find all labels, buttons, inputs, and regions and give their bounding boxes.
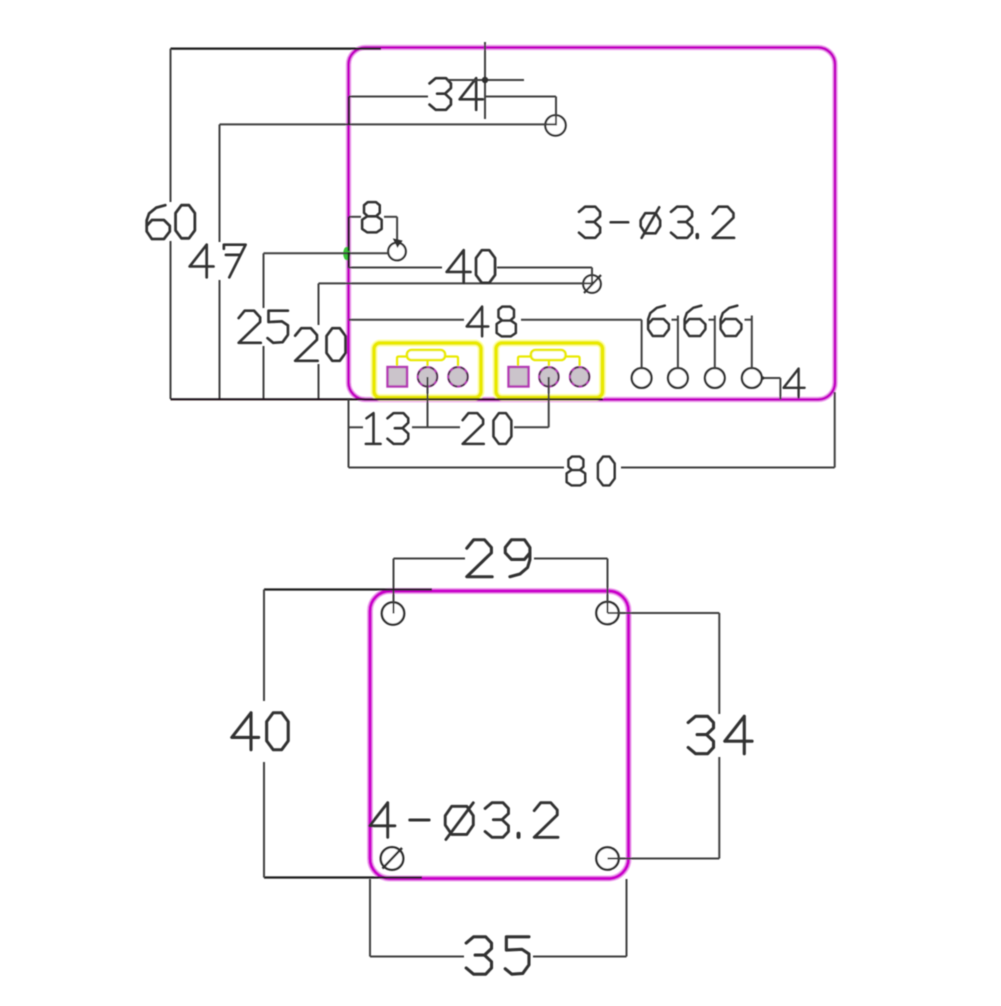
dim 4 bracket bbox=[762, 377, 781, 379]
dim 13-20 left extension bbox=[348, 400, 350, 468]
mounting hole H1 top bbox=[545, 115, 565, 135]
dim 40 line + drop to hole H3 bbox=[349, 267, 443, 269]
dim 47 text bbox=[190, 245, 214, 278]
hole H3 slash bbox=[584, 275, 601, 293]
connector K2 square pad bbox=[509, 367, 529, 387]
dim 40b text bbox=[232, 713, 259, 750]
PCB board outline (bottom view, 35x40) bbox=[370, 591, 629, 879]
connector K2 round pad 1 bbox=[539, 367, 558, 386]
hole B4 bottom-right bbox=[596, 847, 618, 869]
dim 60 extension top bbox=[171, 47, 382, 49]
connector K2 round pad 2 bbox=[570, 367, 589, 386]
connector K2 tab bbox=[531, 350, 566, 360]
dim 8 arrowhead bbox=[393, 238, 403, 248]
pin hole P3 bbox=[705, 368, 725, 388]
dim 34b extensions bbox=[608, 612, 720, 614]
dim 48 text bbox=[467, 307, 489, 337]
dim 6 text 1 bbox=[648, 306, 669, 336]
dim 25 text bbox=[239, 311, 261, 343]
mounting hole H3 bbox=[583, 275, 601, 293]
dim 40 text bbox=[447, 250, 471, 283]
dim 13 line bbox=[349, 426, 364, 428]
center mark vertical bbox=[484, 42, 486, 119]
dim 6 segments bbox=[672, 319, 679, 321]
dim 29 droplines bbox=[393, 559, 395, 614]
dim 8 text bbox=[362, 202, 382, 232]
dim 34 text bbox=[429, 78, 450, 110]
dim 80 text bbox=[567, 457, 586, 486]
pad drop line 1 bbox=[427, 377, 429, 427]
dim 4 text bbox=[784, 369, 805, 398]
pad drop line 2 bbox=[548, 377, 550, 427]
dim 34b line bbox=[718, 613, 720, 714]
connector block K2 outline bbox=[496, 343, 603, 398]
mounting hole H2 left edge bbox=[388, 243, 406, 261]
connector K1 tab bbox=[407, 350, 445, 360]
pin hole P4 bbox=[742, 368, 762, 388]
dim 6 text 3 bbox=[721, 306, 742, 336]
center mark horizontal bbox=[447, 79, 524, 81]
connector K1 square pad bbox=[388, 367, 408, 387]
hole B2 top-right bbox=[596, 602, 618, 624]
hole B3 slash bbox=[383, 848, 403, 869]
pin hole P2 bbox=[668, 368, 688, 388]
connector K1 traces bbox=[397, 357, 458, 367]
center mark dot bbox=[482, 77, 488, 83]
connector K1 round pad 1 bbox=[418, 367, 437, 386]
connector K1 round pad 2 bbox=[448, 367, 467, 386]
PCB board outline (top view, 80x60) bbox=[349, 48, 836, 400]
dim 8 bracket bbox=[349, 216, 361, 218]
dim 48 line bbox=[349, 319, 465, 321]
dim 80 right extension bbox=[834, 392, 836, 468]
dim 34 edge tick bbox=[348, 97, 350, 126]
dim 40b extensions bbox=[264, 588, 432, 590]
dim 29 text bbox=[467, 540, 492, 577]
dim 20 line bbox=[318, 283, 320, 325]
hole H2 green edge mark bbox=[343, 247, 350, 261]
dim 34 line left bbox=[349, 96, 429, 98]
dim 47 extension to hole H1 bbox=[220, 123, 556, 125]
dim 20 extension to hole H3 bbox=[319, 282, 593, 284]
dim 35 line bbox=[370, 956, 464, 958]
dim 20 line bbox=[514, 426, 549, 428]
dim 40b line bbox=[263, 590, 265, 702]
dim 6 text 2 bbox=[685, 306, 706, 336]
dim 25 extension to hole H2 bbox=[264, 252, 389, 254]
hole B3 bottom-left bbox=[381, 847, 404, 870]
hole B1 top-left bbox=[382, 602, 404, 624]
dim 34 line right + drop to hole H1 bbox=[486, 96, 556, 98]
connector K2 traces bbox=[518, 357, 580, 367]
pin droplines bbox=[641, 320, 643, 369]
extension line along bottom edge bbox=[171, 398, 604, 400]
connector block K1 outline bbox=[374, 343, 481, 398]
dim 35 droplines bbox=[369, 879, 371, 957]
dim 80 line bbox=[349, 467, 565, 469]
dim 34b text bbox=[688, 716, 713, 753]
dim 8 edge extension bbox=[348, 217, 350, 251]
dim 13 text bbox=[366, 413, 381, 444]
dim 47 line bbox=[219, 124, 221, 242]
dim 20 text bbox=[463, 413, 484, 444]
dim 29 line bbox=[394, 558, 466, 560]
label 3-dia3.2 bbox=[579, 207, 600, 238]
label 4-dia3.2 bbox=[370, 803, 395, 838]
dim 35 text bbox=[466, 937, 491, 974]
dim 60 line bbox=[170, 49, 172, 202]
pin hole P1 bbox=[632, 368, 652, 388]
dim 20 text bbox=[295, 328, 317, 361]
dim 60 text bbox=[147, 205, 170, 239]
dim 25 line bbox=[263, 253, 265, 308]
